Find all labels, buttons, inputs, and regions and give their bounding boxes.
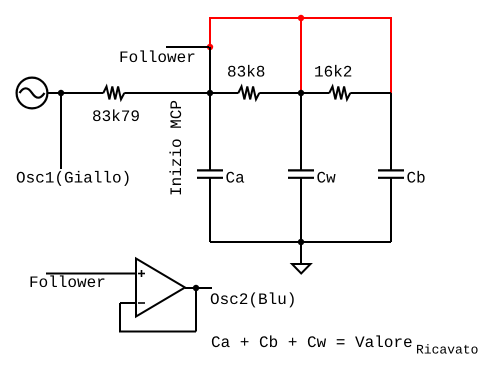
wire source stub down bbox=[60, 93, 62, 169]
label formula Ca + Cb + Cw = Valore bbox=[212, 335, 412, 347]
wire Ca bottom bbox=[209, 178, 211, 242]
wire ground stem bbox=[300, 242, 302, 267]
label Ca bbox=[226, 172, 244, 183]
label Cw bbox=[317, 172, 335, 183]
label Osc2(Blu) bbox=[211, 292, 294, 307]
node output junction bbox=[193, 285, 199, 291]
wire Follower lead bbox=[166, 46, 209, 48]
node red junction Follower tap bbox=[207, 44, 213, 50]
capacitor Cw bbox=[288, 170, 314, 177]
wire bottom rail bbox=[210, 241, 391, 243]
wire red top horizontal net bbox=[209, 17, 391, 19]
wire black tap vertical bbox=[209, 47, 211, 93]
wire to Cb top plate bbox=[390, 93, 392, 170]
wire main horizontal seg2 bbox=[124, 92, 238, 94]
node A junction Ca top bbox=[207, 90, 213, 96]
label Inizio MCP (rotated) bbox=[169, 101, 181, 195]
wire main horizontal seg4 bbox=[350, 92, 391, 94]
node B junction Cw top bbox=[298, 90, 304, 96]
wire Cw bottom bbox=[300, 178, 302, 242]
capacitor Cb bbox=[378, 170, 404, 177]
ground bbox=[292, 264, 311, 274]
value label 83k8 bbox=[228, 65, 264, 77]
wire feedback left vertical bbox=[119, 303, 121, 332]
wire op-amp + input lead bbox=[46, 273, 136, 275]
wire op-amp - input stub bbox=[120, 302, 136, 304]
wire red vertical to node Cb bbox=[390, 17, 392, 93]
wire feedback right vertical bbox=[195, 288, 197, 332]
node junction ground bbox=[298, 239, 304, 245]
node red junction at Cw top bbox=[298, 15, 304, 21]
wire red vertical to node Cw bbox=[300, 18, 302, 93]
resistor R2 83k8 bbox=[238, 87, 259, 100]
wire feedback bottom bbox=[119, 331, 196, 333]
pin - mark bbox=[138, 302, 145, 304]
pin + mark bbox=[138, 270, 145, 277]
node junction at source bbox=[58, 90, 64, 96]
resistor R3 16k2 bbox=[329, 87, 350, 100]
wire output bbox=[185, 287, 212, 289]
wire red vertical to Follower tap bbox=[209, 17, 211, 47]
op-amp U1 bbox=[136, 259, 185, 317]
label Follower (bottom) bbox=[31, 275, 105, 287]
label Osc1(Giallo) bbox=[17, 171, 129, 186]
wire to Cw top plate bbox=[300, 93, 302, 170]
wire main horizontal seg3 bbox=[259, 92, 329, 94]
AC source Osc1 bbox=[17, 78, 48, 109]
resistor R1 83k79 bbox=[103, 87, 124, 100]
capacitor Ca bbox=[197, 170, 223, 177]
label Cb bbox=[407, 171, 424, 183]
wire to Ca top plate bbox=[209, 93, 211, 170]
label Follower (top) bbox=[121, 50, 195, 62]
label subscript Ricavato bbox=[417, 344, 478, 354]
value label 83k79 bbox=[93, 109, 139, 121]
value label 16k2 bbox=[315, 65, 351, 77]
wire Cb bottom bbox=[390, 178, 392, 242]
wire main horizontal seg1 bbox=[47, 92, 103, 94]
